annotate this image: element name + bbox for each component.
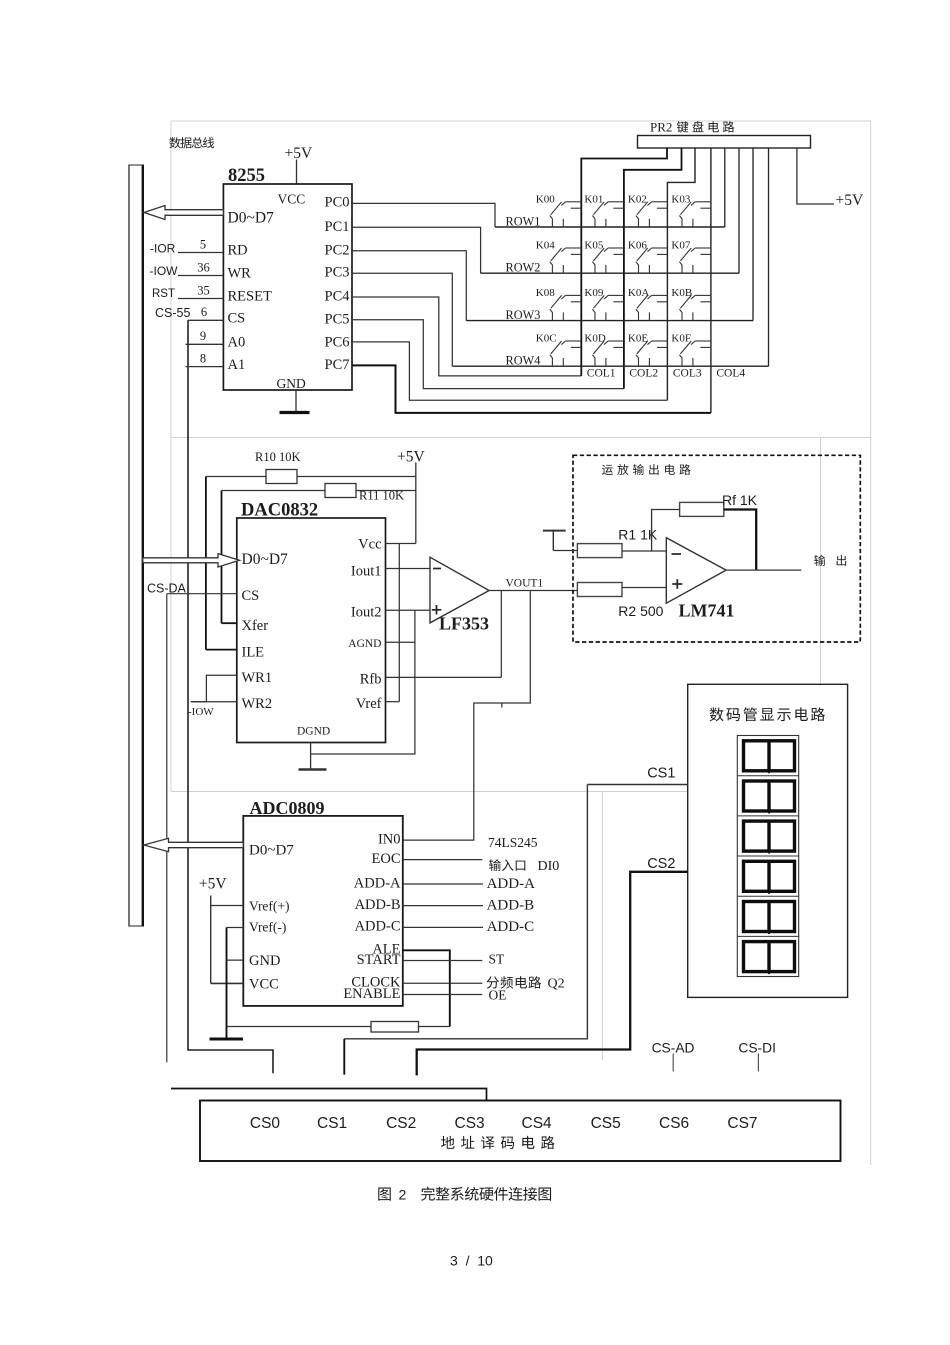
wire ROW2 (481, 148, 739, 273)
svg-text:+5V: +5V (285, 145, 313, 162)
svg-text:PC6: PC6 (325, 335, 350, 351)
wire Vref to +5V (386, 544, 400, 702)
svg-text:CS: CS (228, 310, 246, 326)
key K0A (628, 287, 668, 321)
data bus 数据总线 (129, 137, 214, 926)
svg-text:3 / 10: 3 / 10 (450, 1253, 493, 1269)
IC U5 ADC0809 (243, 798, 402, 1006)
svg-text:ADD-C: ADD-C (487, 919, 534, 935)
wire ADD-C (403, 919, 534, 935)
svg-text:COL2: COL2 (629, 368, 658, 380)
ground (DAC DGND) (299, 743, 327, 770)
svg-text:LM741: LM741 (679, 601, 735, 621)
wire A1 (pin 8) (186, 351, 224, 366)
wire PC1 to ROW2 (352, 227, 481, 273)
svg-text:K06: K06 (628, 240, 647, 252)
wire ILE to R10 (206, 477, 237, 650)
wire output 输出 (726, 555, 846, 570)
svg-text:CS-55: CS-55 (155, 306, 190, 320)
seven-seg digit 3 (744, 821, 795, 854)
seven-seg digit 2 (744, 781, 795, 814)
wire PC5 to COL2 (352, 320, 624, 389)
svg-text:K0E: K0E (628, 333, 648, 345)
resistor R10 10K (206, 450, 416, 484)
svg-text:ADD-C: ADD-C (355, 919, 401, 935)
svg-text:VCC: VCC (278, 192, 306, 207)
svg-text:ROW3: ROW3 (506, 308, 541, 322)
svg-text:ADD-B: ADD-B (355, 897, 401, 913)
svg-text:CS2: CS2 (647, 856, 675, 872)
svg-text:CS0: CS0 (250, 1115, 281, 1132)
svg-text:COL3: COL3 (673, 368, 702, 380)
wire ALE/START to ST (403, 950, 505, 1026)
svg-text:DGND: DGND (297, 726, 330, 738)
svg-text:A1: A1 (228, 357, 246, 373)
wire Iout2 to LF353+ (386, 609, 431, 611)
svg-text:K0B: K0B (671, 287, 692, 299)
wire -IOW to WR (pin 36) (150, 260, 224, 278)
svg-text:A0: A0 (228, 335, 246, 351)
resistor (ENABLE pull) (227, 1022, 450, 1033)
svg-text:K0A: K0A (628, 287, 649, 299)
svg-text:LF353: LF353 (439, 614, 489, 634)
key K03 (671, 194, 711, 228)
svg-text:RESET: RESET (228, 289, 272, 305)
wire PC0 to ROW1 (352, 203, 495, 227)
svg-text:8255: 8255 (228, 166, 265, 186)
resistor R11 10K (222, 484, 416, 503)
svg-text:2: 2 (399, 1187, 407, 1203)
svg-text:ILE: ILE (242, 645, 265, 661)
key K0D (584, 333, 624, 367)
svg-text:Vref(-): Vref(-) (249, 920, 286, 935)
wire ROW3 (466, 148, 753, 321)
svg-text:ADD-A: ADD-A (487, 876, 535, 892)
wire Xfer to R11 (222, 491, 237, 624)
wire EOC to 输入口 DI0 (403, 859, 559, 874)
svg-text:K02: K02 (628, 194, 647, 206)
svg-text:K0D: K0D (584, 333, 605, 345)
svg-text:5: 5 (200, 237, 206, 251)
svg-text:CS1: CS1 (647, 766, 675, 782)
svg-text:CS6: CS6 (659, 1115, 689, 1132)
wire VOUT1 output (489, 578, 577, 591)
svg-text:Vref: Vref (356, 696, 382, 712)
wire ROW1 (495, 148, 725, 227)
display box 数码管显示电路 (688, 684, 848, 997)
svg-text:74LS245: 74LS245 (488, 835, 538, 850)
seven-seg digit 6 (744, 942, 795, 975)
svg-text:RST: RST (152, 288, 175, 300)
wire AGND tie (311, 610, 415, 754)
wire to decoder box (171, 1089, 487, 1101)
svg-text:8: 8 (200, 351, 206, 365)
svg-text:GND: GND (277, 376, 306, 391)
svg-text:CS2: CS2 (386, 1115, 416, 1132)
dashed box 运放输出电路 (573, 455, 860, 642)
svg-text:Rfb: Rfb (360, 672, 382, 688)
key K00 (536, 194, 582, 228)
wire CLOCK to 分频电路 Q2 (403, 976, 565, 991)
svg-text:RD: RD (228, 243, 248, 259)
svg-text:K00: K00 (536, 194, 555, 206)
svg-text:VCC: VCC (249, 977, 279, 993)
svg-text:PR2: PR2 (650, 120, 672, 135)
key K05 (584, 240, 624, 274)
wire COL2 (624, 148, 682, 389)
svg-text:D0~D7: D0~D7 (228, 210, 275, 227)
svg-text:D0~D7: D0~D7 (242, 551, 289, 568)
svg-text:PC3: PC3 (325, 265, 350, 281)
svg-text:CS-DI: CS-DI (738, 1041, 776, 1056)
svg-text:WR1: WR1 (242, 670, 273, 686)
input tee (543, 531, 566, 551)
svg-text:GND: GND (249, 953, 280, 969)
svg-text:ROW4: ROW4 (506, 354, 541, 368)
wire Vref(-)/GND to ground (227, 928, 244, 1039)
svg-text:K08: K08 (536, 287, 555, 299)
wire +5V (keyboard) (797, 148, 864, 209)
key K09 (584, 287, 624, 321)
wire/net CS2 (417, 856, 688, 1075)
wire PC6 to COL3 (352, 342, 667, 400)
IC U1 8255 (223, 166, 352, 391)
ground (ADC) (210, 1038, 244, 1041)
wire PC3 to ROW4 (352, 273, 452, 366)
wire PC7 to COL4 (352, 365, 711, 413)
svg-text:CS7: CS7 (727, 1115, 757, 1132)
svg-text:ROW2: ROW2 (506, 261, 541, 275)
key K01 (584, 194, 624, 228)
svg-text:CS-AD: CS-AD (652, 1041, 695, 1056)
svg-text:PC2: PC2 (325, 242, 350, 258)
svg-text:D0~D7: D0~D7 (249, 843, 294, 859)
svg-text:PC5: PC5 (325, 311, 350, 327)
key K07 (671, 240, 711, 274)
svg-text:CS3: CS3 (455, 1115, 485, 1132)
svg-text:CS4: CS4 (522, 1115, 553, 1132)
svg-text:ST: ST (489, 952, 506, 967)
svg-text:-IOR: -IOR (150, 242, 176, 256)
bus arrow to DAC D0~D7 (143, 554, 240, 567)
key K08 (536, 287, 582, 321)
+5V supply (8255) (285, 145, 313, 184)
wire Vcc to +5V (386, 543, 416, 545)
wire PC2 to ROW3 (352, 251, 466, 321)
wire Iout1 to LF353- (386, 568, 431, 570)
wire/net CS-DA to DAC CS (147, 582, 237, 1063)
svg-text:+5V: +5V (199, 876, 227, 893)
wire COL4 (710, 148, 712, 413)
wire/net CS-55 to CS (pin 6) (155, 305, 273, 1073)
svg-text:9: 9 (200, 329, 206, 343)
svg-text:ADD-A: ADD-A (354, 875, 401, 891)
svg-text:ENABLE: ENABLE (343, 986, 400, 1002)
svg-text:CS1: CS1 (317, 1115, 347, 1132)
key K0C (536, 333, 582, 367)
wire COL1 (581, 148, 667, 376)
svg-text:35: 35 (197, 283, 210, 297)
svg-text:VOUT1: VOUT1 (506, 578, 544, 590)
wire ADD-A (403, 876, 535, 892)
wire ADD-B (403, 897, 534, 913)
svg-text:+5V: +5V (836, 192, 864, 209)
svg-text:K0F: K0F (671, 333, 691, 345)
svg-text:CS: CS (242, 588, 260, 604)
seven-seg digit 5 (744, 902, 795, 935)
wire -IOW to WR1/WR2 (188, 675, 237, 718)
svg-text:IN0: IN0 (378, 831, 401, 847)
svg-text:Iout2: Iout2 (351, 605, 382, 621)
bus arrow to 8255 D0~D7 (144, 206, 223, 220)
wire VOUT1 to ADC IN0 (403, 591, 531, 841)
wire ROW4 (452, 148, 768, 366)
op-amp U3 LF353 (430, 557, 489, 633)
IC U2 DAC0832 (237, 501, 386, 743)
ground (8255 GND) (280, 390, 310, 413)
svg-text:ADC0809: ADC0809 (250, 798, 325, 818)
key K0E (628, 333, 668, 367)
caption 图2 完整系统硬件连接图 (378, 1187, 551, 1203)
seven-seg digit 4 (744, 861, 795, 894)
resistor Rf 1K (feedback) (652, 492, 758, 570)
svg-text:K09: K09 (584, 287, 603, 299)
wire RST to RESET (pin 35) (152, 283, 223, 300)
svg-text:WR: WR (228, 266, 252, 282)
svg-text:COL1: COL1 (587, 368, 616, 380)
svg-text:WR2: WR2 (242, 696, 273, 712)
svg-text:COL4: COL4 (716, 368, 745, 380)
resistor R2 500 (577, 583, 666, 620)
svg-text:ROW1: ROW1 (506, 215, 541, 229)
svg-text:PC7: PC7 (325, 357, 350, 373)
op-amp U4 LM741 (666, 538, 734, 621)
svg-text:DI0: DI0 (538, 859, 560, 874)
wire COL3 (667, 148, 695, 400)
svg-text:Xfer: Xfer (242, 618, 269, 634)
svg-text:-IOW: -IOW (188, 706, 214, 718)
+5V supply (DAC) (397, 449, 425, 544)
wire A0 (pin 9) (186, 329, 224, 344)
svg-text:Rf 1K: Rf 1K (722, 492, 758, 508)
svg-text:CS5: CS5 (591, 1115, 621, 1132)
key K0F (671, 333, 711, 367)
svg-text:R11 10K: R11 10K (359, 489, 404, 503)
wire/net CS1 (344, 766, 687, 1075)
svg-text:Vref(+): Vref(+) (249, 899, 290, 914)
bus arrow to ADC D0~D7 (144, 838, 244, 851)
wire -IOR to RD (pin 5) (150, 237, 223, 255)
key K02 (628, 194, 668, 228)
key K0B (671, 287, 711, 321)
svg-text:-IOW: -IOW (150, 264, 179, 278)
svg-text:K07: K07 (671, 240, 690, 252)
svg-text:K04: K04 (536, 240, 555, 252)
svg-text:R10 10K: R10 10K (255, 450, 301, 464)
svg-text:K01: K01 (584, 194, 603, 206)
svg-text:PC0: PC0 (325, 195, 350, 211)
wire PC4 to COL1 (352, 297, 581, 376)
svg-text:Vcc: Vcc (358, 537, 381, 553)
svg-text:OE: OE (489, 988, 507, 1003)
svg-text:Q2: Q2 (548, 977, 565, 992)
resistor R1 1K (553, 527, 666, 558)
svg-text:Iout1: Iout1 (351, 564, 382, 580)
svg-text:K05: K05 (584, 240, 603, 252)
svg-text:EOC: EOC (372, 851, 401, 867)
svg-text:PC1: PC1 (325, 219, 350, 235)
+5V supply (ADC) (199, 876, 243, 984)
decoder box 地址译码电路 (200, 1101, 841, 1162)
svg-text:K0C: K0C (536, 333, 557, 345)
svg-text:+5V: +5V (397, 449, 425, 466)
label CS-DI (738, 1041, 776, 1072)
label CS-AD (652, 1041, 695, 1072)
wire Rfb feedback (386, 591, 502, 678)
svg-text:6: 6 (201, 305, 207, 319)
seven-seg digit 1 (744, 741, 795, 774)
svg-text:START: START (357, 952, 401, 968)
svg-text:ADD-B: ADD-B (487, 897, 534, 913)
svg-text:PC4: PC4 (325, 289, 351, 305)
svg-text:36: 36 (197, 260, 210, 274)
svg-text:R2 500: R2 500 (618, 603, 663, 619)
svg-text:AGND: AGND (348, 638, 381, 650)
keyboard header box PR2 键盘电路 (638, 120, 811, 149)
key K06 (628, 240, 668, 274)
wire ENABLE to OE (403, 988, 507, 1003)
key K04 (536, 240, 582, 274)
svg-text:K03: K03 (671, 194, 690, 206)
